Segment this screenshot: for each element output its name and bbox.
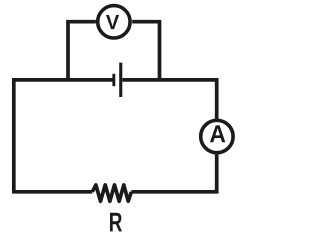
battery: long plate (positive) <box>119 63 122 97</box>
resistor R <box>92 185 131 201</box>
wire: voltmeter branch right <box>132 22 159 80</box>
voltmeter V <box>98 6 130 38</box>
label R <box>110 213 122 232</box>
wire: voltmeter branch left <box>68 22 96 80</box>
battery: short plate (negative) <box>112 74 115 86</box>
wire: bottom-right segment up to ammeter <box>131 155 216 192</box>
wire: top-left segment, left side, bottom-left segment <box>14 80 113 192</box>
wire: top-right segment down to ammeter <box>122 80 216 119</box>
ammeter A <box>201 120 233 152</box>
